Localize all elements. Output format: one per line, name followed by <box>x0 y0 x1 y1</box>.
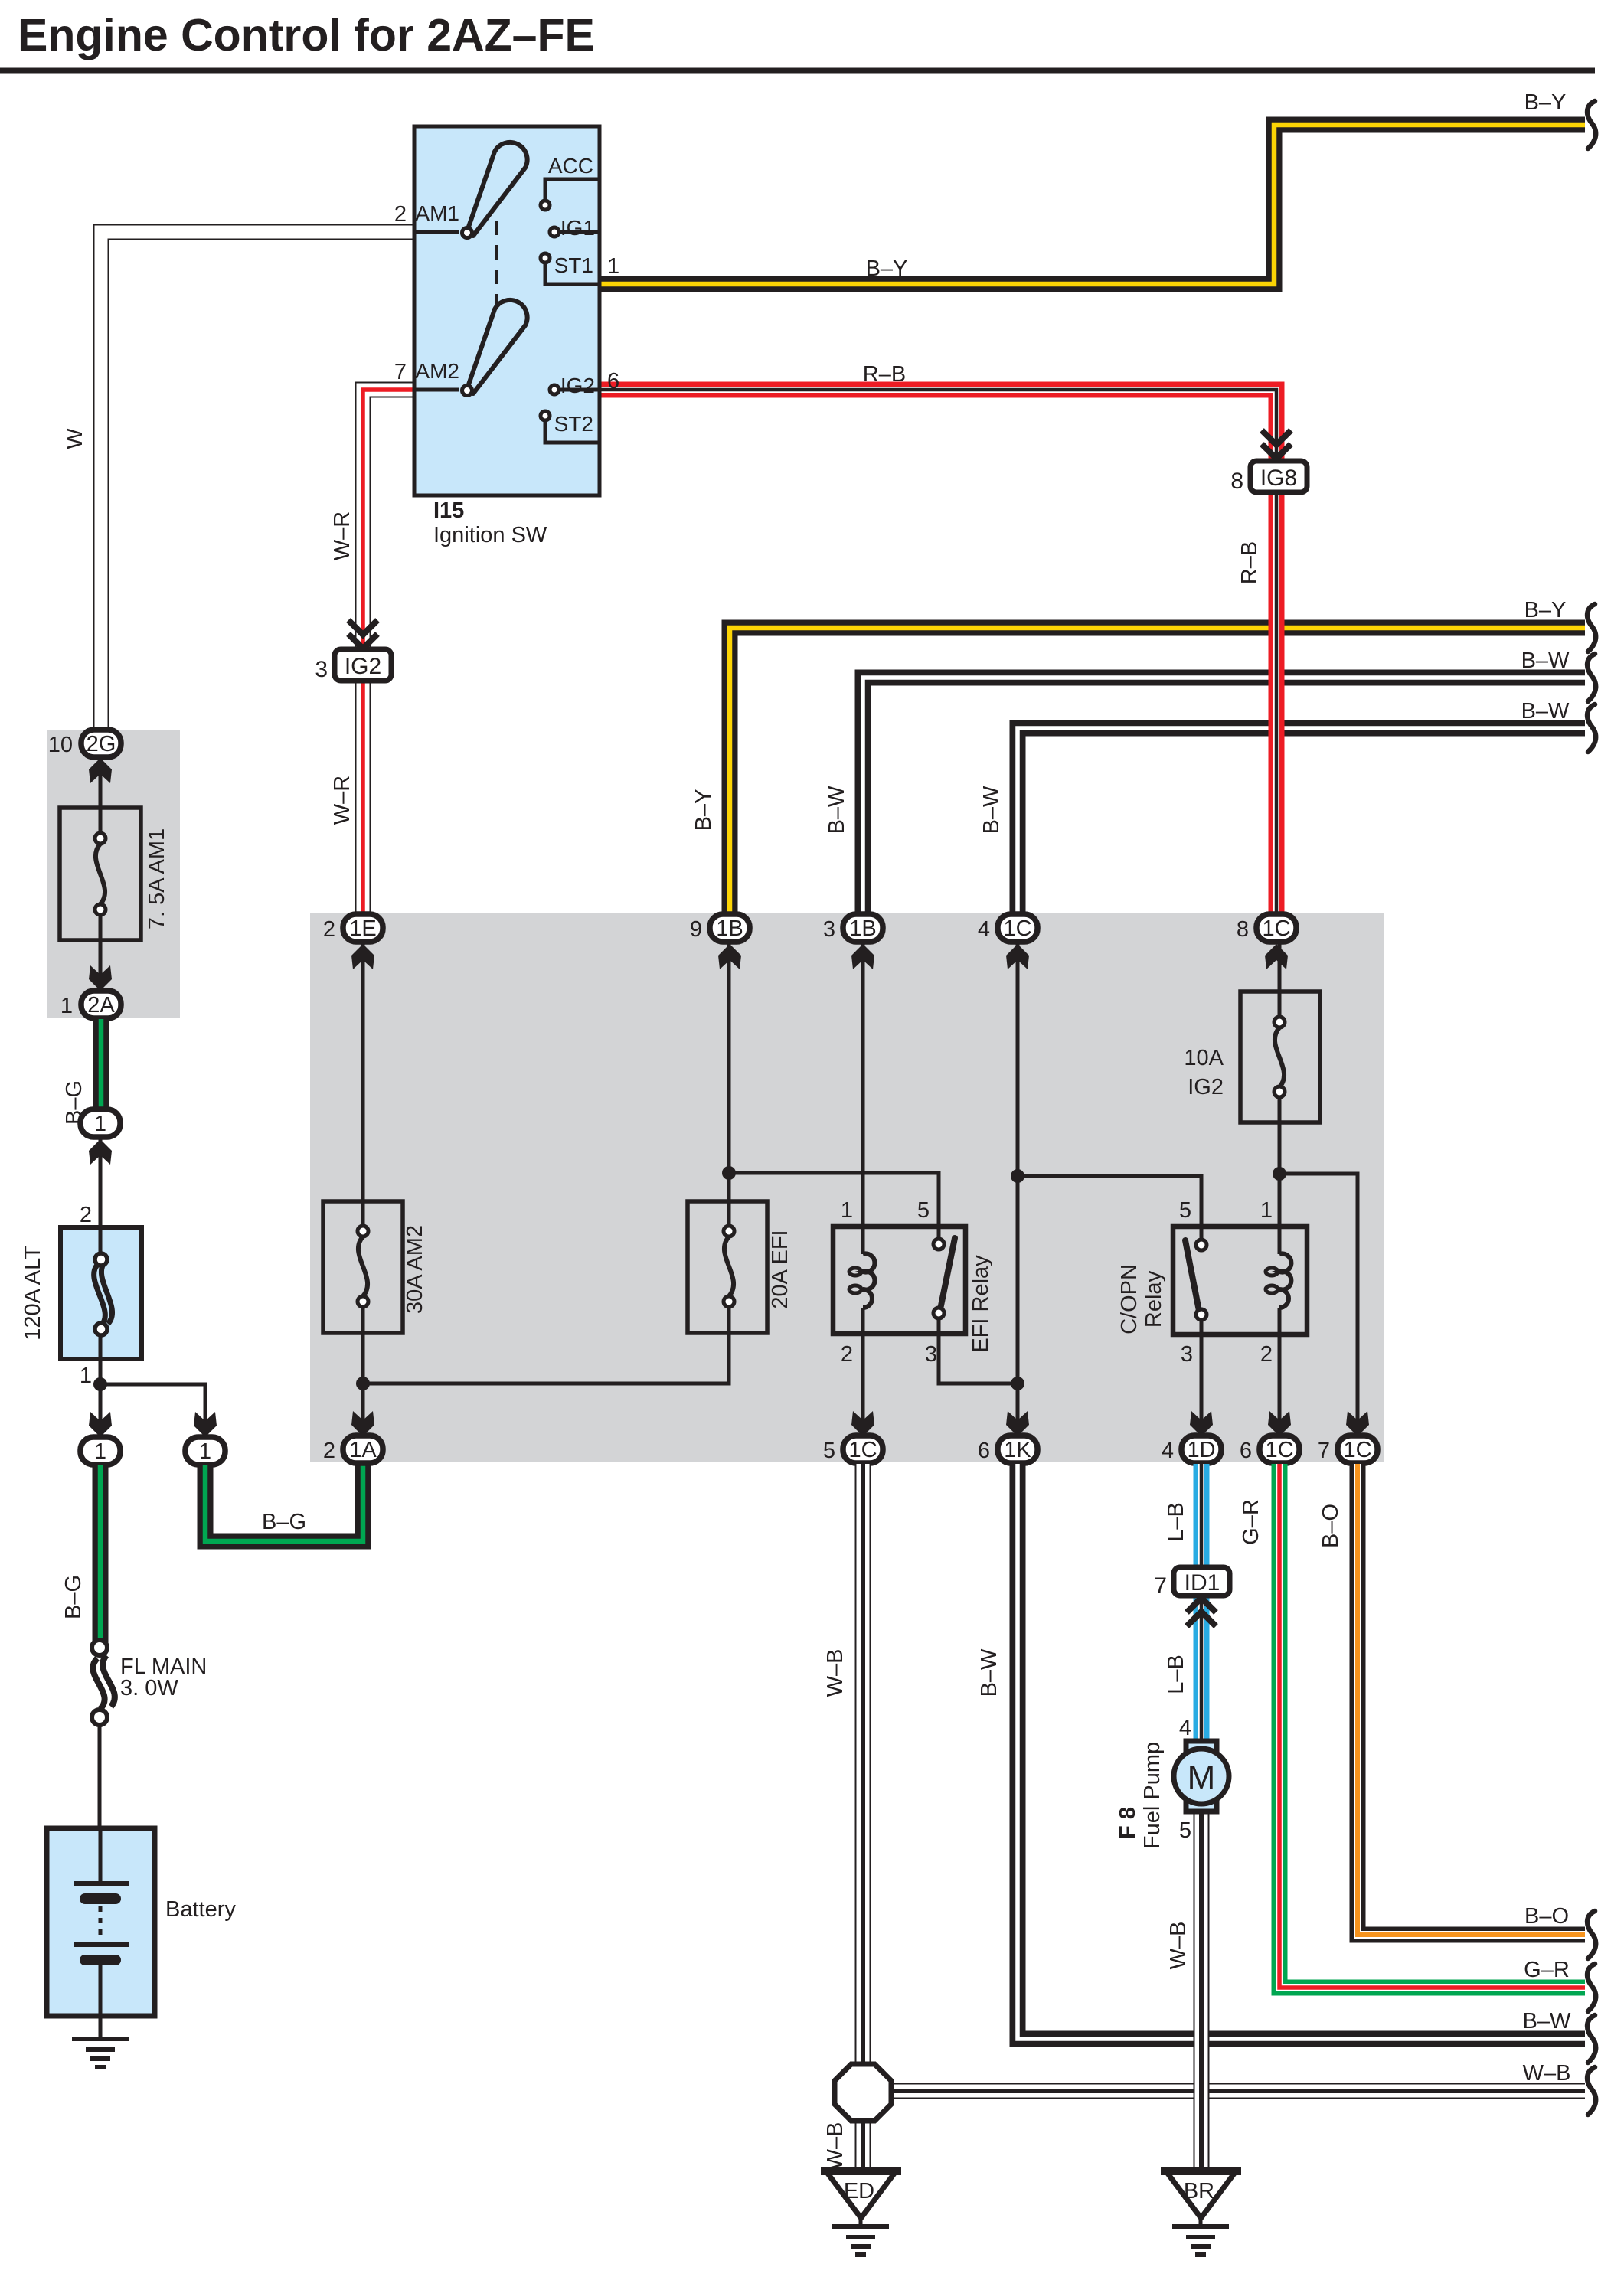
connector 2G pin 10 <box>48 730 121 757</box>
break G-R <box>1587 1964 1596 2011</box>
svg-text:1C: 1C <box>1343 1438 1371 1462</box>
wire B-Y (ST1 to right edge) <box>600 125 1585 284</box>
junction dot 10A IG2 out <box>1273 1167 1286 1181</box>
svg-text:10: 10 <box>48 733 73 757</box>
break W-B <box>1587 2067 1596 2115</box>
connector 1K pin 6 <box>978 1436 1037 1463</box>
connector 1D pin 4 <box>1162 1436 1221 1463</box>
connector IG8 chevrons <box>1262 430 1291 459</box>
splice 1 <box>80 1109 120 1137</box>
wire B-O (1C pin7 to right edge) <box>1358 1464 1585 1935</box>
wire 2G to fuse AM1 <box>99 756 103 835</box>
wire 1E to fuse 30A AM2 <box>361 942 365 1227</box>
svg-text:4: 4 <box>1162 1439 1174 1463</box>
ST2 terminal <box>541 411 600 443</box>
splice 1 right <box>185 1437 225 1465</box>
svg-text:3: 3 <box>1181 1342 1193 1367</box>
svg-text:R–B: R–B <box>1237 541 1262 584</box>
junction dot 1B pin9 <box>722 1166 736 1180</box>
connector 2A pin 1 <box>60 991 121 1018</box>
svg-text:1: 1 <box>841 1198 853 1223</box>
svg-text:1K: 1K <box>1004 1438 1031 1462</box>
ignition switch I15 block <box>414 126 600 495</box>
AM1 pivot <box>462 228 472 238</box>
svg-text:2: 2 <box>323 917 335 942</box>
svg-text:1: 1 <box>80 1364 92 1388</box>
svg-text:W–B: W–B <box>823 1649 848 1697</box>
wire B-Y (1B pin9 to right edge) <box>730 628 1585 917</box>
svg-text:I15: I15 <box>433 498 464 523</box>
svg-text:C/OPN: C/OPN <box>1117 1264 1142 1334</box>
AM1 lever <box>467 142 528 236</box>
svg-text:EFI Relay: EFI Relay <box>969 1255 993 1353</box>
junction dot <box>93 1377 107 1391</box>
AM1 terminal line <box>414 230 459 234</box>
svg-text:2: 2 <box>841 1342 853 1367</box>
wire ALT to junction and splices <box>100 1359 205 1439</box>
IG2 terminal <box>550 385 600 394</box>
wire to 1C pin7 <box>1279 1174 1358 1439</box>
wire B-G (splice to FL MAIN) <box>93 1465 109 1643</box>
wire R-B (IG8 connector to 1C pin8) <box>1269 492 1285 917</box>
svg-text:1: 1 <box>60 994 73 1018</box>
svg-text:10A: 10A <box>1184 1046 1224 1070</box>
svg-text:B–W: B–W <box>977 1648 1002 1697</box>
arrow into 2G <box>89 758 112 783</box>
svg-text:7. 5A AM1: 7. 5A AM1 <box>145 828 169 929</box>
battery ground <box>72 2039 129 2067</box>
svg-text:30A AM2: 30A AM2 <box>403 1225 427 1314</box>
svg-text:Battery: Battery <box>165 1897 236 1922</box>
connector IG2 chevrons <box>348 620 377 648</box>
wire G-R (1C pin6 to right edge) <box>1279 1464 1585 1988</box>
wire EFI relay pin 3 to 1K line <box>939 1318 1018 1383</box>
wire junction to 20A EFI fuse <box>363 1306 729 1383</box>
svg-text:1C: 1C <box>1003 916 1031 941</box>
svg-text:B–O: B–O <box>1318 1504 1343 1548</box>
mechanical link dashed <box>495 221 498 315</box>
main relay block gray panel <box>310 913 1384 1462</box>
wire 1C pin4 to 1K pin6 <box>1016 942 1020 1439</box>
break B-O <box>1587 1911 1596 1958</box>
connector 1C pin 6 <box>1240 1436 1299 1463</box>
svg-text:B–Y: B–Y <box>1524 90 1567 115</box>
wire BR to ground <box>1199 2218 1203 2226</box>
svg-text:W–R: W–R <box>330 776 355 825</box>
svg-text:1A: 1A <box>349 1438 377 1462</box>
svg-text:1: 1 <box>1260 1198 1273 1223</box>
break B-Y mid <box>1587 604 1596 652</box>
arrows into top connectors <box>351 944 374 969</box>
svg-text:1D: 1D <box>1187 1438 1215 1462</box>
wire B-G (2A to splice 1) <box>93 1019 109 1112</box>
wire W-B (ground splice to right edge) <box>888 2083 1585 2099</box>
svg-text:1C: 1C <box>1262 916 1290 941</box>
connector IG2 box pin 3 <box>335 649 391 681</box>
wire C/OPN relay pin 3 to 1D <box>1200 1319 1204 1439</box>
wire 1B pin3 through EFI relay coil to 1C pin5 <box>861 942 865 1439</box>
svg-text:Ignition SW: Ignition SW <box>433 523 547 547</box>
svg-text:1: 1 <box>94 1439 106 1464</box>
svg-text:AM1: AM1 <box>415 201 459 225</box>
svg-text:5: 5 <box>1179 1198 1191 1223</box>
svg-text:6: 6 <box>978 1439 990 1463</box>
svg-text:1: 1 <box>199 1439 211 1464</box>
C/OPN relay box <box>1173 1227 1307 1334</box>
break B-W 1 <box>1587 654 1596 701</box>
connector 1B pin 9 <box>690 914 750 942</box>
svg-text:F 8: F 8 <box>1116 1807 1140 1839</box>
svg-text:8: 8 <box>1230 469 1243 494</box>
wire fuse 30A AM2 to 1A with junction <box>361 1306 365 1439</box>
wire W-B (ground splice to ED) <box>855 2117 871 2171</box>
svg-text:9: 9 <box>690 917 702 942</box>
svg-text:3. 0W: 3. 0W <box>120 1676 178 1700</box>
fuse 10A IG2 <box>1240 991 1320 1122</box>
wire W-R (IG2 connector to 1E) <box>355 681 371 917</box>
wire to EFI relay pin 5 <box>729 1173 939 1240</box>
svg-text:ACC: ACC <box>548 154 593 178</box>
battery <box>47 1828 155 2039</box>
ground triangle BR <box>1161 2171 1241 2218</box>
connector 1A pin 2 <box>323 1436 383 1463</box>
arrow into splice 1 <box>89 1139 112 1165</box>
junction dot 30A AM2 out <box>356 1377 370 1390</box>
wire W-B (fuel pump to BR) <box>1194 1810 1210 2171</box>
wire B-G (splice to 1A) <box>205 1464 363 1541</box>
fuse 20A EFI <box>688 1201 767 1333</box>
svg-text:5: 5 <box>823 1439 835 1463</box>
wire ED to ground <box>859 2218 863 2226</box>
svg-text:B–G: B–G <box>61 1575 86 1619</box>
C/OPN relay coil <box>1266 1254 1291 1308</box>
wire splice 1 to ALT <box>99 1138 103 1227</box>
arrow into right splice 1 <box>194 1412 217 1437</box>
svg-text:3: 3 <box>315 657 328 682</box>
svg-text:Engine Control for 2AZ–FE: Engine Control for 2AZ–FE <box>18 10 595 60</box>
svg-text:W–R: W–R <box>330 511 355 560</box>
alternator 120A ALT <box>60 1227 142 1359</box>
wire W (AM1 to 2G) <box>101 232 414 731</box>
wire R-B (IG2 pin6 to IG8 connector) <box>600 390 1276 461</box>
arrow into 2A <box>89 965 112 991</box>
connector 1E pin 2 <box>323 914 383 942</box>
svg-text:B–G: B–G <box>262 1510 306 1534</box>
ground symbol ED <box>832 2226 889 2255</box>
svg-text:B–Y: B–Y <box>866 256 908 281</box>
ST1 terminal <box>541 253 600 284</box>
svg-text:20A EFI: 20A EFI <box>768 1230 792 1308</box>
ground triangle ED <box>821 2171 901 2218</box>
EFI relay coil <box>849 1254 874 1308</box>
break B-W 2 <box>1587 704 1596 752</box>
svg-text:4: 4 <box>1179 1716 1191 1740</box>
svg-text:B–W: B–W <box>1521 699 1570 724</box>
ground splice octagon <box>835 2064 891 2121</box>
AM2 terminal line <box>414 388 459 392</box>
svg-text:2: 2 <box>394 202 407 227</box>
connector ID1 box pin 7 <box>1174 1567 1230 1596</box>
svg-text:7: 7 <box>1154 1573 1167 1599</box>
IG1 terminal <box>550 227 600 237</box>
svg-text:6: 6 <box>1240 1439 1252 1463</box>
svg-text:W–B: W–B <box>1166 1922 1191 1970</box>
svg-text:2: 2 <box>80 1203 92 1227</box>
wire to C/OPN relay pin 5 <box>1018 1176 1201 1240</box>
svg-text:2G: 2G <box>87 732 116 756</box>
wire L-B (1D pin4 to ID1) <box>1194 1464 1210 1567</box>
svg-text:2: 2 <box>323 1439 335 1463</box>
ground symbol BR <box>1172 2226 1229 2255</box>
svg-text:ST1: ST1 <box>554 253 593 277</box>
AM2 lever <box>467 300 528 394</box>
svg-text:5: 5 <box>1179 1818 1191 1843</box>
svg-text:Relay: Relay <box>1142 1270 1166 1328</box>
break B-Y top <box>1587 101 1596 149</box>
connector 1C pin 4 <box>978 914 1037 942</box>
svg-text:W–B: W–B <box>1523 2061 1571 2086</box>
wire 1B pin9 to 20A EFI fuse <box>727 942 731 1227</box>
arrow into left splice 1 <box>89 1412 112 1437</box>
EFI relay switch <box>933 1238 955 1318</box>
svg-text:1: 1 <box>94 1112 106 1136</box>
C/OPN relay switch <box>1185 1240 1207 1320</box>
svg-text:G–R: G–R <box>1524 1958 1570 1982</box>
svg-text:7: 7 <box>1318 1439 1330 1463</box>
svg-text:W: W <box>63 428 87 449</box>
svg-text:1C: 1C <box>848 1438 877 1462</box>
svg-text:IG2: IG2 <box>345 654 381 679</box>
svg-text:1C: 1C <box>1265 1438 1293 1462</box>
junction dot EFI pin3 <box>1011 1377 1024 1390</box>
svg-text:1B: 1B <box>849 916 876 941</box>
wire FL MAIN to battery <box>98 1726 102 1828</box>
svg-text:W–B: W–B <box>823 2122 848 2171</box>
svg-text:1: 1 <box>607 254 619 279</box>
svg-text:B–W: B–W <box>1523 2009 1571 2034</box>
svg-text:R–B: R–B <box>863 362 906 387</box>
connector 1C pin 5 <box>823 1436 883 1463</box>
svg-text:Fuel Pump: Fuel Pump <box>1140 1742 1165 1849</box>
connector ID1 chevrons <box>1187 1598 1216 1626</box>
AM2 pivot <box>462 386 472 396</box>
wire B-W (1C pin4 to right edge) <box>1018 728 1585 917</box>
svg-text:6: 6 <box>607 369 619 394</box>
svg-text:IG2: IG2 <box>560 374 595 397</box>
arrows into bottom connectors <box>351 1411 374 1436</box>
svg-text:BR: BR <box>1184 2179 1214 2203</box>
junction block gray panel (left, 7.5A AM1) <box>47 730 180 1018</box>
junction dot C/OPN feed <box>1011 1169 1024 1183</box>
wire B-W (1K pin6 to right edge) <box>1018 1464 1585 2039</box>
splice 1 left <box>80 1437 120 1465</box>
svg-text:B–O: B–O <box>1524 1904 1569 1929</box>
svg-text:7: 7 <box>394 360 407 384</box>
svg-text:5: 5 <box>917 1198 930 1223</box>
svg-text:B–W: B–W <box>979 786 1004 834</box>
fuse 30A AM2 <box>323 1201 403 1333</box>
fuse 7.5A AM1 <box>60 808 141 940</box>
svg-text:IG8: IG8 <box>1260 466 1297 491</box>
svg-text:8: 8 <box>1237 917 1249 942</box>
svg-text:ED: ED <box>844 2179 874 2203</box>
svg-text:B–Y: B–Y <box>691 789 716 831</box>
svg-text:G–R: G–R <box>1239 1499 1263 1545</box>
svg-text:B–Y: B–Y <box>1524 598 1567 622</box>
svg-text:IG2: IG2 <box>1188 1075 1224 1099</box>
fusible link FL MAIN 3.0W <box>92 1640 115 1725</box>
svg-text:AM2: AM2 <box>415 359 459 383</box>
svg-text:ID1: ID1 <box>1185 1570 1220 1596</box>
wire fuse AM1 to 2A <box>99 915 103 992</box>
wire fuse 10A IG2 to C/OPN coil and 1C pin6 <box>1278 1096 1282 1439</box>
svg-text:L–B: L–B <box>1164 1502 1188 1542</box>
wire W-B (1C pin5 to ground splice) <box>855 1464 871 2067</box>
connector IG8 box pin 8 <box>1250 461 1307 492</box>
svg-text:2: 2 <box>1260 1342 1273 1367</box>
connector 1C pin 7 <box>1318 1436 1377 1463</box>
wire 1C pin8 to fuse 10A IG2 <box>1278 942 1282 1018</box>
wire L-B (ID1 to fuel pump) <box>1194 1596 1210 1743</box>
wire B-W (1B pin3 to right edge) <box>863 678 1585 917</box>
svg-text:2A: 2A <box>87 993 115 1018</box>
fuel pump F8 <box>1174 1741 1229 1811</box>
svg-text:IG1: IG1 <box>560 216 595 240</box>
svg-text:4: 4 <box>978 917 990 942</box>
svg-text:B–W: B–W <box>825 786 849 834</box>
title rule <box>0 68 1595 74</box>
wire W-R (AM2 to IG2 connector) <box>363 390 414 649</box>
svg-text:L–B: L–B <box>1164 1655 1188 1694</box>
svg-text:M: M <box>1188 1759 1216 1796</box>
break B-W <box>1587 2015 1596 2063</box>
ACC terminal <box>541 179 600 210</box>
svg-text:120A ALT: 120A ALT <box>21 1246 45 1341</box>
svg-text:3: 3 <box>925 1342 937 1367</box>
connector 1B pin 3 <box>823 914 883 942</box>
connector 1C pin 8 <box>1237 914 1296 942</box>
EFI relay box <box>833 1227 966 1334</box>
svg-text:1B: 1B <box>716 916 743 941</box>
svg-text:B–W: B–W <box>1521 648 1570 673</box>
svg-text:1E: 1E <box>349 916 376 941</box>
svg-text:3: 3 <box>823 917 835 942</box>
svg-text:ST2: ST2 <box>554 412 593 436</box>
